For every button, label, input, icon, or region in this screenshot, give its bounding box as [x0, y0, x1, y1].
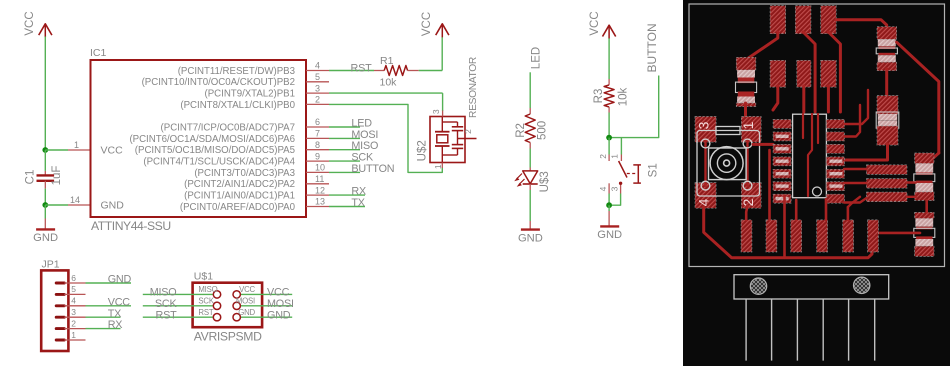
pin hole VCC of U$1 — [233, 285, 256, 298]
pin 3 pad of JP1 — [56, 316, 64, 319]
svg-text:(PCINT0/AREF/ADC0)PA0: (PCINT0/AREF/ADC0)PA0 — [180, 202, 296, 213]
svg-text:2: 2 — [463, 129, 473, 134]
pin 1 stub of IC1 — [68, 140, 91, 150]
wire net LED from IC1 — [329, 117, 372, 129]
svg-text:10: 10 — [315, 163, 325, 173]
wire net RST from pin 4 to R1 — [329, 62, 374, 74]
wire net BUTTON from IC1 — [329, 163, 394, 175]
trace C2 to right bus — [844, 144, 888, 160]
svg-text:LED: LED — [351, 117, 372, 129]
trace bottom pad6 to V5 — [878, 232, 920, 235]
svg-text:GND: GND — [597, 229, 622, 241]
PCB board layout panel — [683, 0, 950, 366]
pad top row 2 — [795, 6, 811, 34]
svg-text:GND: GND — [238, 308, 255, 317]
wire node to S1 pins 2,1 — [609, 138, 621, 155]
pin 7 stub of IC1 ((PCINT6/OC1A/SDA/MOSI/ADC6)PA6) — [129, 129, 329, 145]
svg-text:SCK: SCK — [351, 152, 374, 164]
node junction S1/GND — [606, 202, 612, 208]
pad top row 1 — [770, 6, 786, 34]
svg-text:9: 9 — [315, 151, 320, 161]
pin 2 stub of IC1 ((PCINT8/XTAL1/CLKI)PB0) — [180, 95, 329, 111]
svg-text:SCK: SCK — [155, 298, 178, 310]
wire net GND at JP1 pin 6 — [86, 274, 132, 286]
trace pad1 to C1 — [747, 32, 778, 59]
trace row2 pad3 down — [827, 86, 830, 112]
svg-text:3: 3 — [431, 109, 441, 114]
svg-text:RST: RST — [198, 308, 213, 317]
pin 5 pad of JP1 — [56, 293, 64, 296]
wire node to IC1 pin 14 — [45, 204, 68, 206]
component R2 on board — [914, 153, 935, 201]
ground symbol (LED branch) — [518, 230, 543, 245]
resistor R3 10k — [593, 79, 629, 113]
wire net MISO from IC1 — [329, 140, 378, 152]
trace button pad4 to bottom bus — [704, 207, 872, 258]
pad top row 3 — [821, 6, 837, 34]
pin 12 stub of IC1 ((PCINT1/AIN0/ADC1)PA1) — [184, 185, 329, 201]
pin 14 stub of IC1 — [68, 195, 91, 205]
wire net XTAL2 pin 3 to resonator pin 3 — [329, 93, 443, 111]
connector U$1 AVRISPSMD body — [193, 270, 263, 343]
resistor R2 500 — [515, 108, 549, 149]
trace to bottom pad2 — [768, 150, 771, 220]
trace pad2 down — [803, 32, 815, 112]
node junction VCC/C1/IC1 pin1 — [42, 147, 48, 153]
trace IC to bar3 — [844, 198, 867, 203]
trace IC right pads up — [844, 90, 868, 124]
pin 5 stub of JP1 — [64, 284, 85, 294]
wire VCC to R3 — [608, 38, 610, 79]
trace to bottom pad5 — [847, 207, 850, 220]
svg-text:VCC: VCC — [267, 287, 290, 299]
wire S1 pins 4,3 to node — [609, 194, 621, 206]
pin 6 stub of IC1 ((PCINT7/ICP/OC0B/ADC7)PA7) — [161, 117, 329, 133]
svg-text:R2: R2 — [515, 123, 527, 138]
svg-text:10k: 10k — [380, 77, 398, 89]
svg-text:4: 4 — [696, 198, 712, 206]
svg-text:1: 1 — [740, 121, 756, 129]
svg-text:6: 6 — [315, 117, 320, 127]
connector hole left — [750, 278, 766, 294]
wire net MOSI from U$1 — [241, 298, 294, 310]
svg-text:U$3: U$3 — [539, 171, 551, 192]
wire net BUTTON — [609, 23, 659, 137]
resistor R1 10k — [374, 55, 419, 89]
bottom connector outline — [734, 275, 889, 299]
component C1 on board — [736, 57, 757, 106]
pin 8 stub of IC1 ((PCINT5/OC1B/MISO/DO/ADC5)PA5) — [135, 140, 329, 156]
resonator U$2 — [416, 57, 479, 169]
wire net MISO to U$1 — [143, 287, 213, 299]
svg-text:(PCINT2/AIN1/ADC2)PA2: (PCINT2/AIN1/ADC2)PA2 — [184, 179, 295, 190]
trace R1 right diagonal — [897, 42, 939, 153]
board outline — [689, 4, 945, 267]
wire net TX from pin 13 — [329, 197, 365, 209]
svg-text:2: 2 — [71, 318, 76, 328]
svg-text:7: 7 — [315, 129, 320, 139]
pin 13 stub of IC1 ((PCINT0/AREF/ADC0)PA0) — [180, 197, 329, 213]
svg-text:GND: GND — [33, 232, 58, 244]
trace row2 pad2 down — [802, 86, 805, 112]
svg-text:(PCINT8/XTAL1/CLKI)PB0: (PCINT8/XTAL1/CLKI)PB0 — [180, 100, 295, 111]
pin hole SCK of U$1 — [198, 297, 220, 310]
trace bar3 to V4 bottom pad — [907, 196, 916, 198]
pin 6 pad of JP1 — [56, 282, 64, 285]
pad second row 1 — [770, 60, 786, 87]
wire VCC rail down to node — [44, 37, 46, 151]
trace row2 pad1 down — [773, 86, 778, 110]
pin 10 stub of IC1 ((PCINT3/T0/ADC3)PA3) — [194, 163, 329, 179]
svg-text:U$2: U$2 — [416, 140, 428, 161]
svg-text:MOSI: MOSI — [351, 129, 378, 141]
pin hole MOSI of U$1 — [233, 297, 255, 310]
wire net RST to U$1 — [143, 309, 213, 321]
wire net GND from U$1 — [241, 309, 292, 321]
trace button pad2 to bottom pad1 — [746, 206, 747, 220]
svg-text:S1: S1 — [647, 163, 659, 177]
svg-text:(PCINT6/OC1A/SDA/MOSI/ADC6)PA6: (PCINT6/OC1A/SDA/MOSI/ADC6)PA6 — [129, 134, 295, 145]
svg-text:VCC: VCC — [108, 296, 131, 308]
svg-text:(PCINT10/INT0/OC0A/CKOUT)PB2: (PCINT10/INT0/OC0A/CKOUT)PB2 — [142, 77, 295, 88]
trace button pad1 to IC — [753, 143, 773, 146]
wire net TX at JP1 pin 3 — [86, 308, 122, 320]
svg-text:12: 12 — [315, 185, 325, 195]
pin 11 stub of IC1 ((PCINT2/AIN1/ADC2)PA2) — [184, 174, 329, 190]
trace C1 to button pad 1 — [744, 103, 747, 118]
svg-text:GND: GND — [101, 200, 125, 212]
pin 3 stub of JP1 — [64, 307, 85, 317]
pin 4 stub of IC1 ((PCINT11/RESET/DW)PB3) — [178, 61, 329, 77]
svg-text:(PCINT7/ICP/OC0B/ADC7)PA7: (PCINT7/ICP/OC0B/ADC7)PA7 — [161, 122, 295, 133]
svg-text:R1: R1 — [380, 55, 394, 67]
svg-text:GND: GND — [267, 309, 291, 321]
svg-text:5: 5 — [71, 284, 76, 294]
svg-text:MISO: MISO — [150, 287, 177, 299]
svg-text:MISO: MISO — [198, 285, 217, 294]
ground symbol (under C1) — [33, 229, 58, 244]
power symbol VCC (button branch) — [589, 11, 616, 38]
wire node to ground (button branch) — [608, 205, 610, 226]
component R1 on board — [876, 27, 897, 71]
svg-text:(PCINT3/T0/ADC3)PA3: (PCINT3/T0/ADC3)PA3 — [194, 168, 295, 179]
svg-text:RST: RST — [351, 62, 373, 74]
wire node to ground — [44, 205, 46, 229]
trace R1 bottom to V3 — [885, 69, 888, 97]
svg-text:MOSI: MOSI — [236, 297, 255, 306]
svg-text:3: 3 — [610, 186, 620, 191]
wire net MOSI from IC1 — [329, 129, 378, 141]
LED U$3 — [514, 168, 551, 193]
pin 3 stub of IC1 ((PCINT9/XTAL2)PB1) — [205, 83, 329, 99]
trace to bottom pad3 — [783, 196, 786, 258]
svg-text:2: 2 — [598, 154, 608, 159]
svg-text:C1: C1 — [24, 170, 36, 185]
svg-text:(PCINT5/OC1B/MISO/DO/ADC5)PA5: (PCINT5/OC1B/MISO/DO/ADC5)PA5 — [135, 145, 295, 156]
wire net SCK to U$1 — [143, 298, 213, 310]
op-amp/IC IC1 ATTINY44-SSU body — [90, 47, 306, 233]
svg-text:VCC: VCC — [589, 11, 601, 35]
switch S1 — [598, 154, 660, 194]
trace right bus to V4 — [924, 153, 939, 160]
svg-text:JP1: JP1 — [42, 259, 60, 271]
trace bar to pad5 — [848, 197, 860, 207]
svg-text:2: 2 — [315, 95, 320, 105]
svg-text:500: 500 — [537, 121, 549, 140]
wire net SCK from IC1 — [329, 152, 374, 164]
svg-text:1: 1 — [433, 164, 443, 169]
svg-text:RX: RX — [108, 319, 123, 331]
svg-text:4: 4 — [598, 186, 608, 191]
component R3 on board — [914, 212, 935, 256]
power symbol VCC (left rail) — [24, 11, 52, 37]
svg-text:IC1: IC1 — [90, 47, 107, 59]
wire net RX from pin 12 — [329, 186, 366, 198]
node junction R3/BUTTON/S1 — [606, 135, 612, 141]
svg-text:1: 1 — [71, 330, 76, 340]
pin 2 stub of JP1 — [64, 318, 85, 328]
connector pins — [746, 299, 875, 361]
svg-text:RESONATOR: RESONATOR — [468, 57, 479, 118]
svg-text:AVRISPSMD: AVRISPSMD — [194, 330, 262, 344]
trace bar2 to R2 body — [907, 181, 916, 183]
svg-text:14: 14 — [70, 195, 80, 205]
svg-text:11: 11 — [315, 174, 324, 184]
power symbol VCC (top right) — [421, 12, 449, 37]
svg-text:4: 4 — [315, 61, 320, 71]
ground symbol (button branch) — [597, 226, 622, 241]
svg-text:RST: RST — [156, 309, 178, 321]
wire R1 to VCC — [419, 37, 443, 71]
capacitor C1 — [24, 150, 63, 205]
svg-text:(PCINT1/AIN0/ADC1)PA1: (PCINT1/AIN0/ADC1)PA1 — [184, 191, 295, 202]
trace IC to bar1 — [844, 168, 867, 170]
node junction C1/GND/IC1 pin14 — [42, 202, 48, 208]
trace pad3 down — [828, 32, 840, 112]
svg-text:RX: RX — [351, 186, 366, 198]
trace IC to bar2 — [844, 182, 867, 184]
svg-text:VCC: VCC — [101, 145, 124, 157]
svg-text:3: 3 — [315, 83, 320, 93]
svg-text:MISO: MISO — [351, 140, 378, 152]
svg-text:3: 3 — [696, 121, 712, 129]
wire R3 to node — [608, 113, 610, 138]
trace pad3 to R1 — [836, 20, 887, 28]
pin 1 stub of JP1 — [64, 330, 85, 340]
connector JP1 body — [41, 259, 68, 352]
svg-text:BUTTON: BUTTON — [351, 163, 394, 175]
wire net LED (to R2) — [530, 47, 542, 108]
pin 2 pad of JP1 — [56, 327, 64, 330]
wire net RX at JP1 pin 2 — [86, 319, 123, 331]
svg-text:BUTTON: BUTTON — [645, 23, 659, 72]
wire R2 to LED U$3 — [529, 149, 531, 168]
trace V4 to V5 — [925, 201, 928, 213]
svg-text:GND: GND — [108, 274, 132, 286]
pad second row 2 — [797, 60, 811, 87]
button S1 on board — [695, 117, 761, 209]
wire net VCC from U$1 — [241, 287, 292, 299]
resistor bar 2 on board — [867, 179, 908, 189]
pin 6 stub of JP1 — [64, 273, 85, 283]
svg-text:8: 8 — [315, 140, 320, 150]
wire node to IC1 pin 1 — [45, 149, 68, 151]
svg-text:R3: R3 — [593, 89, 605, 104]
pin 1 pad of JP1 — [56, 339, 64, 342]
svg-text:6: 6 — [71, 273, 76, 283]
pin 4 stub of JP1 — [64, 296, 85, 306]
bottom connector pads — [741, 220, 878, 252]
svg-text:U$1: U$1 — [194, 270, 213, 282]
wire net XTAL1 pin 2 to resonator pin 1 — [329, 104, 442, 172]
wire net VCC at JP1 pin 4 — [86, 296, 132, 308]
svg-text:MOSI: MOSI — [267, 298, 294, 310]
svg-text:GND: GND — [518, 232, 543, 244]
svg-text:5: 5 — [315, 72, 320, 82]
svg-text:1uF: 1uF — [51, 166, 63, 186]
pin 9 stub of IC1 ((PCINT4/T1/SCL/USCK/ADC4)PA4) — [143, 151, 329, 167]
pin 4 pad of JP1 — [56, 304, 64, 307]
svg-text:(PCINT9/XTAL2)PB1: (PCINT9/XTAL2)PB1 — [205, 89, 295, 100]
svg-text:1: 1 — [74, 140, 79, 150]
svg-text:(PCINT11/RESET/DW)PB3: (PCINT11/RESET/DW)PB3 — [178, 66, 295, 77]
connector hole right — [854, 277, 870, 293]
pin hole MISO of U$1 — [198, 285, 220, 298]
svg-text:13: 13 — [315, 197, 325, 207]
component C2 on board — [876, 96, 899, 146]
pin hole RST of U$1 — [198, 308, 220, 321]
svg-text:10k: 10k — [617, 87, 629, 106]
svg-text:TX: TX — [108, 308, 121, 320]
svg-text:TX: TX — [351, 197, 364, 209]
pad second row 3 — [821, 60, 837, 87]
resistor bar 1 on board — [867, 165, 908, 175]
pin 5 stub of IC1 ((PCINT10/INT0/OC0A/CKOUT)PB2) — [142, 72, 329, 88]
wire LED to ground — [529, 184, 531, 229]
svg-text:VCC: VCC — [421, 12, 433, 36]
pin hole GND of U$1 — [233, 308, 256, 321]
svg-text:SCK: SCK — [198, 297, 214, 306]
svg-text:3: 3 — [71, 307, 76, 317]
resistor bar 3 on board — [867, 192, 908, 202]
svg-text:LED: LED — [530, 47, 542, 69]
svg-text:1: 1 — [610, 154, 620, 159]
trace to bottom pad4 — [825, 199, 828, 220]
svg-text:VCC: VCC — [239, 285, 255, 294]
svg-text:ATTINY44-SSU: ATTINY44-SSU — [91, 219, 171, 233]
svg-text:(PCINT4/T1/SCL/USCK/ADC4)PA4: (PCINT4/T1/SCL/USCK/ADC4)PA4 — [143, 157, 295, 168]
trace to bottom pad3b — [795, 200, 798, 220]
svg-text:VCC: VCC — [24, 11, 36, 35]
IC footprint on board — [773, 114, 844, 203]
svg-text:4: 4 — [71, 296, 76, 306]
